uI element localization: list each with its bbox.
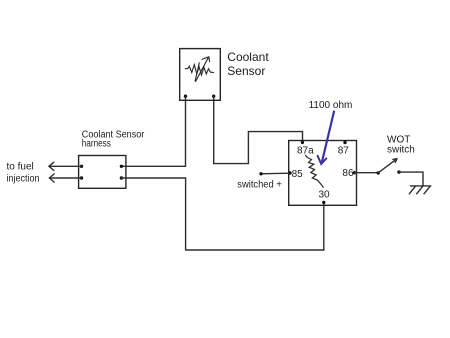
svg-text:86: 86 [342,168,354,179]
svg-text:85: 85 [292,169,304,180]
svg-text:87: 87 [338,146,350,157]
node switched + dot [259,172,262,175]
relay pin 86 dot [353,171,356,174]
WOT switch throw dot [397,170,400,173]
relay box K1 [289,141,357,206]
wire: pin 86 to WOT switch [355,172,379,174]
coolant sensor box U1 [180,49,221,101]
svg-text:Coolant: Coolant [227,50,269,64]
relay pin 87a dot [301,141,304,144]
svg-text:harness: harness [82,138,111,149]
WOT switch blade with arrow tip [378,159,397,173]
svg-text:87a: 87a [297,146,314,157]
wire: harness bottom-right to relay pin 30 [121,178,323,250]
wire+arrow to fuel injection (bottom) [49,177,81,179]
svg-text:1100 ohm: 1100 ohm [309,100,353,111]
thermistor symbol inside sensor [185,57,213,82]
svg-text:Sensor: Sensor [227,64,265,78]
sensor pin dot right [212,95,215,98]
WOT switch pole dot [377,171,380,174]
wire: switch to ground [399,172,423,186]
wire: sensor left pin down to harness top-right wire [121,96,185,166]
wire: switched + to pin 85 [261,172,289,175]
svg-text:30: 30 [319,189,331,200]
svg-text:injection: injection [7,173,40,184]
relay pin 30 dot [322,201,325,204]
wire: sensor right pin to relay pin 87a (jog) [214,96,303,163]
ground symbol [409,186,431,194]
relay pin 85 dot [288,171,291,174]
svg-text:switch: switch [387,145,415,156]
harness pin dots [80,165,83,168]
annotation arrow (blue) pointing to 1100 ohm resistor [318,112,334,165]
svg-text:to fuel: to fuel [7,162,34,173]
wire+arrow to fuel injection (top) [49,165,82,167]
sensor pin dot left [184,95,187,98]
resistor 1100 ohm squiggle inside relay [305,155,323,187]
svg-text:switched +: switched + [237,180,282,191]
relay pin 87 dot [343,141,346,144]
harness box [79,156,126,189]
